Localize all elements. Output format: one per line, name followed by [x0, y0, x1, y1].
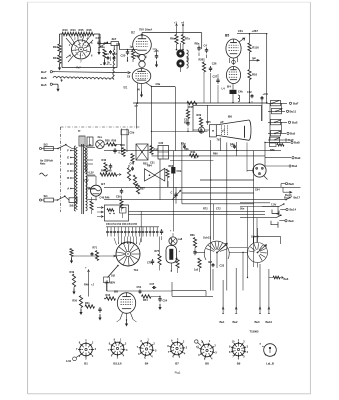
wire between fans	[229, 248, 248, 254]
comb labels	[106, 223, 138, 226]
resistor R50	[72, 296, 82, 316]
tube base B356 diagram	[108, 338, 128, 359]
svg-text:C4: C4	[204, 44, 208, 48]
svg-text:Bu17: Bu17	[294, 196, 301, 200]
contact row BuF	[266, 100, 299, 105]
wire fan drop x247	[247, 207, 248, 279]
svg-text:B8: B8	[205, 362, 209, 366]
wire B+ rail right	[237, 33, 267, 35]
wire contact verticals	[240, 203, 278, 215]
label Tb1	[134, 268, 139, 272]
resistor R18	[122, 148, 125, 157]
svg-text:R12: R12	[112, 52, 117, 56]
capacitor C21 tuner	[107, 50, 112, 65]
svg-text:3k7: 3k7	[112, 37, 117, 41]
svg-text:C20: C20	[121, 54, 126, 58]
label R72	[203, 208, 208, 211]
supply arrow into B2	[141, 33, 143, 37]
resistor R14	[70, 28, 78, 36]
svg-text:A: A	[67, 187, 69, 191]
svg-text:Bu5: Bu5	[290, 132, 296, 136]
capacitor C5c	[98, 307, 101, 321]
resistor R21 tuner	[101, 46, 107, 66]
svg-text:C4b: C4b	[238, 90, 243, 94]
label +267	[252, 29, 259, 33]
terminal Bu12	[266, 269, 273, 324]
svg-text:R14: R14	[71, 28, 77, 32]
transformer tap letters	[67, 149, 69, 191]
wire left branch x151	[151, 87, 153, 151]
svg-text:C37: C37	[150, 283, 155, 286]
svg-text:C27: C27	[213, 75, 218, 79]
switch lever St	[99, 42, 108, 48]
svg-text:Bu2: Bu2	[233, 320, 239, 324]
resistor R16	[248, 70, 258, 103]
label 50n	[240, 208, 245, 211]
resistor R39 col	[197, 114, 203, 134]
svg-text:E: E	[67, 156, 69, 160]
resistor R7a	[181, 29, 190, 45]
svg-text:BuE: BuE	[295, 156, 301, 160]
svg-text:C7b: C7b	[147, 262, 152, 265]
dial lamp	[96, 135, 105, 149]
svg-text:10a: 10a	[101, 46, 106, 49]
terminal Bu7	[41, 70, 55, 74]
svg-text:R18: R18	[120, 143, 125, 147]
wire fan right down	[254, 218, 258, 268]
wire bus y180	[200, 179, 254, 180]
resistor R41	[85, 302, 95, 308]
wire vertical x173	[172, 151, 174, 232]
svg-text:C33: C33	[220, 265, 225, 268]
resistor R13	[62, 28, 70, 36]
tube B5 pins	[117, 313, 137, 327]
svg-text:LaL,B: LaL,B	[266, 362, 274, 366]
capacitor C10 row	[104, 52, 117, 60]
svg-text:7,5V: 7,5V	[271, 202, 277, 206]
fan switch Sch11 wires	[195, 253, 217, 269]
wire bus y156	[152, 155, 266, 157]
switch block small b	[87, 137, 93, 146]
label R66	[213, 153, 218, 156]
svg-text:+C8: +C8	[263, 92, 269, 96]
IF transformer L4 core	[222, 87, 244, 95]
capacitor C4c	[230, 143, 236, 149]
svg-text:C46: C46	[130, 163, 135, 166]
resistor R116	[248, 34, 259, 69]
svg-text:C: C	[171, 192, 173, 195]
resistor R64 v	[166, 169, 169, 187]
svg-text:B1: B1	[84, 362, 88, 366]
resistor R7b	[171, 258, 180, 273]
wire tuner frame	[62, 34, 117, 68]
svg-text:D: D	[67, 162, 69, 166]
svg-text:C61: C61	[238, 29, 243, 33]
resistor mid column upper	[131, 154, 134, 171]
svg-text:R16: R16	[252, 73, 258, 77]
svg-text:R71: R71	[93, 247, 98, 250]
mains sine symbol	[40, 173, 48, 176]
svg-text:C31: C31	[150, 162, 155, 165]
svg-text:B7: B7	[175, 362, 179, 366]
label 0p1	[119, 152, 123, 155]
svg-text:Bu6: Bu6	[41, 76, 47, 80]
resistor R19	[53, 53, 61, 64]
svg-text:B8: B8	[114, 290, 118, 294]
wire right mid vertical	[264, 142, 266, 166]
label R63	[169, 165, 174, 168]
wire lamp pair vertical	[122, 129, 128, 153]
terminal Bu16 Bu17	[284, 196, 301, 201]
resistor left of rotary	[70, 247, 116, 264]
wire din feed	[246, 142, 248, 171]
fuse Si1	[39, 194, 57, 202]
capacitor C38v	[186, 121, 189, 132]
svg-text:(gn: (gn	[252, 56, 256, 60]
label 7p5V	[271, 202, 277, 206]
svg-text:R13: R13	[63, 28, 69, 32]
svg-text:R75: R75	[155, 250, 160, 253]
resistor R55	[104, 139, 121, 147]
svg-text:Bu11: Bu11	[290, 110, 297, 114]
wire bus y199	[104, 199, 286, 201]
mech link dash-dot horizontal	[61, 126, 142, 128]
wavy heater wire vertical	[113, 46, 115, 80]
svg-text:C18: C18	[112, 143, 117, 147]
svg-text:R10: R10	[53, 45, 59, 49]
svg-text:St2: St2	[111, 274, 116, 278]
label C61	[238, 29, 243, 33]
svg-text:Si1: Si1	[44, 194, 49, 198]
svg-text:B1: B1	[124, 86, 128, 90]
label R47 R48	[101, 168, 112, 172]
rotary lead arrows	[118, 243, 137, 244]
switch lever St2	[104, 265, 119, 283]
wire magic eye top	[193, 105, 262, 131]
svg-text:R37: R37	[140, 188, 145, 191]
wire bus y103	[133, 102, 267, 108]
magic eye socket box	[206, 121, 216, 137]
label Tr	[78, 129, 82, 133]
contact pair lower	[240, 211, 294, 227]
svg-text:C6a: C6a	[181, 143, 186, 146]
tube base LaL diagram	[260, 343, 277, 357]
capacitor C20	[120, 49, 138, 62]
svg-text:C: C	[67, 169, 69, 173]
connector St8	[69, 198, 77, 208]
wire Bu7 to B1 grid	[55, 71, 130, 73]
tube V1 grid leads	[66, 35, 93, 62]
electrolytic C6b	[171, 167, 181, 174]
wire gn annotation	[250, 56, 260, 61]
svg-text:1a5: 1a5	[194, 269, 199, 272]
svg-text:C54: C54	[163, 300, 168, 303]
switch lever mains top	[57, 144, 74, 150]
transformer primary coil	[74, 146, 77, 211]
svg-text:7b1: 7b1	[217, 139, 222, 142]
wavy heater tick	[61, 79, 63, 82]
svg-text:10k 185V: 10k 185V	[105, 282, 116, 285]
wire B1 cathode down	[140, 89, 143, 98]
wire y131 link	[151, 131, 208, 132]
svg-text:B6: B6	[228, 114, 232, 118]
rotary left arrow	[114, 255, 117, 257]
label C6a	[181, 143, 186, 149]
svg-text:BuS: BuS	[292, 121, 298, 125]
svg-text:C17: C17	[96, 36, 102, 40]
wire vertical x181	[181, 142, 183, 204]
capacitor C54	[158, 297, 167, 311]
svg-text:C5b: C5b	[130, 132, 135, 135]
svg-text:20k: 20k	[185, 148, 190, 151]
wire below R6a R7a	[176, 44, 184, 50]
fan switch Sch11	[203, 236, 229, 261]
resistor R47	[100, 173, 109, 176]
svg-text:R8a: R8a	[195, 42, 200, 46]
svg-text:3b: 3b	[89, 144, 92, 147]
svg-text:R66: R66	[213, 153, 218, 156]
svg-text:B3,5,6: B3,5,6	[113, 362, 122, 366]
resistor R48	[109, 173, 122, 176]
tube V1 mixer circle	[72, 40, 91, 59]
tube B1	[124, 69, 151, 92]
crossbar switch box 2	[158, 142, 169, 159]
svg-text:C6b: C6b	[177, 170, 182, 173]
resistor R38v	[186, 103, 189, 119]
wire bus y187	[104, 186, 301, 188]
svg-text:75V 10mA: 75V 10mA	[139, 28, 152, 32]
svg-text:Bu7: Bu7	[41, 70, 47, 74]
label B4 base	[145, 362, 149, 366]
capacitor C26	[209, 62, 217, 104]
contact row Bu11	[268, 108, 297, 113]
trimmer C39	[171, 187, 181, 204]
wire bus y203	[182, 203, 254, 205]
svg-text:R15: R15	[79, 28, 85, 32]
transformer secondary mid	[86, 164, 88, 186]
bowtie transformer right	[147, 164, 165, 182]
svg-text:R41: R41	[85, 302, 90, 305]
ground below R19	[58, 64, 61, 71]
label 2k2	[104, 41, 109, 45]
terminal Bu1	[220, 280, 226, 324]
svg-text:C30: C30	[159, 142, 164, 145]
svg-text:R19: R19	[53, 56, 59, 60]
svg-text:BuB: BuB	[294, 141, 300, 145]
tube B3 anode arrow	[239, 38, 245, 42]
svg-text:R26: R26	[199, 58, 204, 62]
transformer core	[82, 144, 84, 214]
resistor R6c fan	[194, 258, 201, 272]
tube B1 pins	[137, 82, 175, 104]
svg-text:Bu4: Bu4	[292, 164, 298, 168]
label C72	[216, 208, 221, 211]
wire anode down	[106, 280, 108, 291]
svg-text:Si2: Si2	[44, 143, 49, 147]
wire right box vertical	[266, 34, 268, 103]
magic eye tube body	[217, 125, 228, 136]
wire vertical x143	[136, 103, 138, 129]
capacitor C58v	[160, 229, 163, 240]
resistor R10	[53, 34, 62, 53]
svg-text:C36: C36	[116, 196, 121, 199]
tube B2	[131, 31, 151, 55]
wire vertical x168	[167, 181, 169, 187]
lamp La8	[169, 230, 183, 246]
svg-text:b 62: b 62	[66, 360, 72, 363]
transformer secondary HV	[84, 146, 87, 174]
svg-text:R42: R42	[102, 158, 107, 162]
wire y160	[170, 160, 213, 162]
svg-text:B2: B2	[131, 31, 135, 35]
fuse Si2	[39, 147, 58, 151]
wavy heater wire Bu6	[53, 76, 114, 79]
label C46	[130, 163, 135, 166]
capacitor C4	[204, 44, 209, 59]
magic eye cathode circle	[193, 127, 210, 133]
svg-text:Bu9: Bu9	[289, 219, 295, 223]
magic eye label B6	[228, 114, 232, 118]
capacitor C7b	[147, 259, 154, 265]
svg-text:C64: C64	[255, 189, 260, 192]
wire lever down	[107, 283, 173, 292]
tube B4	[226, 67, 240, 89]
resistor R15	[78, 28, 86, 36]
capacitor C5 plus	[153, 49, 160, 68]
tube B5 output	[114, 290, 136, 314]
terminal BuE	[265, 156, 301, 160]
svg-text:B5: B5	[225, 34, 229, 38]
tube B2 lower diodes	[138, 54, 146, 67]
wire B+ rail upper	[142, 33, 202, 49]
svg-text:µT: µT	[222, 130, 225, 133]
svg-text:R72: R72	[203, 208, 208, 211]
stabilizer tube	[166, 238, 181, 271]
resistor R37	[136, 184, 145, 195]
resistor column left	[102, 158, 113, 173]
resistor R45	[187, 101, 197, 109]
svg-text:R39: R39	[197, 114, 202, 117]
svg-text:C52: C52	[137, 286, 142, 289]
svg-text:C8a: C8a	[156, 82, 161, 86]
tube base B4 diagram	[137, 339, 157, 360]
terminal Bu3	[255, 264, 262, 324]
DIN connector	[247, 164, 268, 180]
svg-text:R55: R55	[105, 139, 110, 143]
resistor R6b fan	[190, 234, 197, 255]
resistor R6a	[170, 29, 178, 45]
label B1 base	[84, 362, 88, 366]
svg-text:Bu8: Bu8	[289, 182, 295, 186]
capacitor C33	[208, 261, 225, 291]
svg-text:F: F	[67, 149, 69, 153]
terminal Bu13	[283, 187, 292, 197]
detector box terminals	[97, 207, 103, 218]
label B9 base	[237, 362, 241, 366]
rotary tube B7 circle	[116, 242, 140, 266]
label C31	[150, 162, 155, 165]
svg-text:R7a: R7a	[185, 37, 190, 41]
page border right edge	[309, 2, 311, 394]
detector box contents	[107, 208, 126, 219]
wire magic eye bottom	[220, 138, 237, 156]
svg-text:L4: L4	[222, 87, 226, 91]
wire bus y214	[137, 213, 265, 215]
fan switch SchB	[248, 234, 268, 262]
resistor column mid low	[116, 189, 123, 212]
contact row BuS	[268, 119, 298, 124]
svg-text:B: B	[67, 176, 69, 180]
wire bus y150	[104, 150, 281, 152]
svg-text:R4b: R4b	[191, 150, 196, 154]
resistor R75	[155, 237, 162, 271]
tuner pin labels	[69, 36, 93, 64]
svg-text:Bu3: Bu3	[255, 320, 261, 324]
terminal Bu6	[41, 76, 47, 80]
resistor box 3k7	[100, 37, 120, 50]
capacitor C52	[137, 286, 142, 294]
label R49	[84, 283, 94, 287]
label B7 base	[175, 362, 179, 366]
svg-text:R56: R56	[112, 139, 117, 143]
wire vertical x262	[261, 96, 263, 121]
capacitor C8	[261, 96, 264, 100]
transformer taps	[70, 150, 74, 189]
svg-text:B4: B4	[145, 362, 149, 366]
terminal Bu6 right	[269, 276, 289, 281]
capacitor C27	[213, 74, 220, 103]
fan wires right	[253, 228, 280, 244]
wire bus y211	[137, 210, 265, 212]
label Tk7	[76, 66, 81, 70]
svg-text:R44: R44	[106, 294, 111, 297]
label C8 plus	[263, 92, 269, 96]
wire vertical x253	[253, 151, 255, 243]
component row below ladder	[270, 143, 285, 152]
resistor R16	[86, 28, 94, 36]
svg-text:R16: R16	[87, 28, 93, 32]
tube base B7 diagram	[167, 338, 187, 359]
detector box	[105, 205, 129, 221]
terminal Bu2	[233, 268, 239, 324]
crossbar switch box 1	[136, 144, 148, 160]
IF transformer L3 core	[176, 43, 184, 72]
label C38 R38	[184, 119, 189, 125]
label C9	[127, 75, 131, 78]
svg-text:Bu6: Bu6	[284, 277, 289, 281]
wire vertical x175	[174, 87, 176, 151]
resistor R33	[127, 165, 130, 180]
resistor R54	[142, 295, 161, 302]
capacitor C62	[247, 90, 254, 103]
rotary tube pin leads	[114, 237, 141, 246]
label C46 R46	[100, 197, 110, 200]
svg-text:R52: R52	[143, 163, 148, 166]
wire bus y193	[182, 192, 254, 194]
transformer secondary leads	[88, 144, 95, 200]
switch lever mains bottom	[57, 195, 69, 200]
wire vertical x213	[212, 204, 214, 240]
wire plus feed	[85, 266, 89, 297]
terminal Bu4	[265, 164, 298, 168]
svg-text:7k7: 7k7	[76, 66, 81, 70]
tube B3 pins mid	[230, 58, 238, 65]
resistor R24 ps	[90, 197, 93, 214]
svg-text:Bu12: Bu12	[266, 320, 273, 324]
svg-text:La8: La8	[178, 238, 183, 241]
resistor R8a	[195, 42, 201, 57]
svg-text:0,1: 0,1	[119, 152, 123, 155]
